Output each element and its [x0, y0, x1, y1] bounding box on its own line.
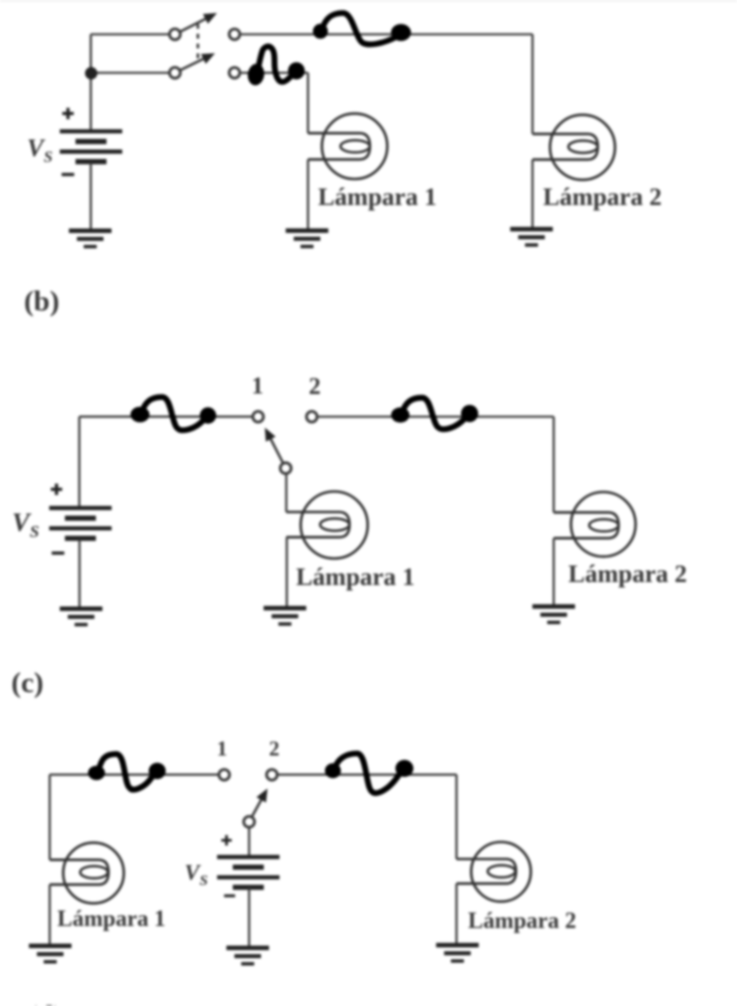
svg-text:Lámpara 1: Lámpara 1: [57, 906, 165, 931]
svg-text:2: 2: [269, 737, 280, 761]
svg-text:VS: VS: [12, 507, 39, 541]
svg-text:1: 1: [217, 737, 228, 761]
svg-text:Lámpara 2: Lámpara 2: [568, 561, 687, 588]
svg-text:Lámpara 1: Lámpara 1: [296, 564, 415, 591]
svg-text:(c): (c): [11, 667, 43, 699]
svg-text:1: 1: [252, 373, 264, 399]
svg-text:Lámpara 2: Lámpara 2: [543, 184, 662, 211]
svg-text:Lámpara 2: Lámpara 2: [468, 908, 576, 933]
svg-text:2: 2: [309, 374, 321, 400]
svg-text:VS: VS: [185, 860, 208, 890]
svg-text:Lámpara 1: Lámpara 1: [318, 184, 437, 211]
svg-text:(d): (d): [28, 1000, 63, 1006]
svg-text:VS: VS: [27, 135, 53, 166]
svg-text:(b): (b): [24, 286, 59, 318]
